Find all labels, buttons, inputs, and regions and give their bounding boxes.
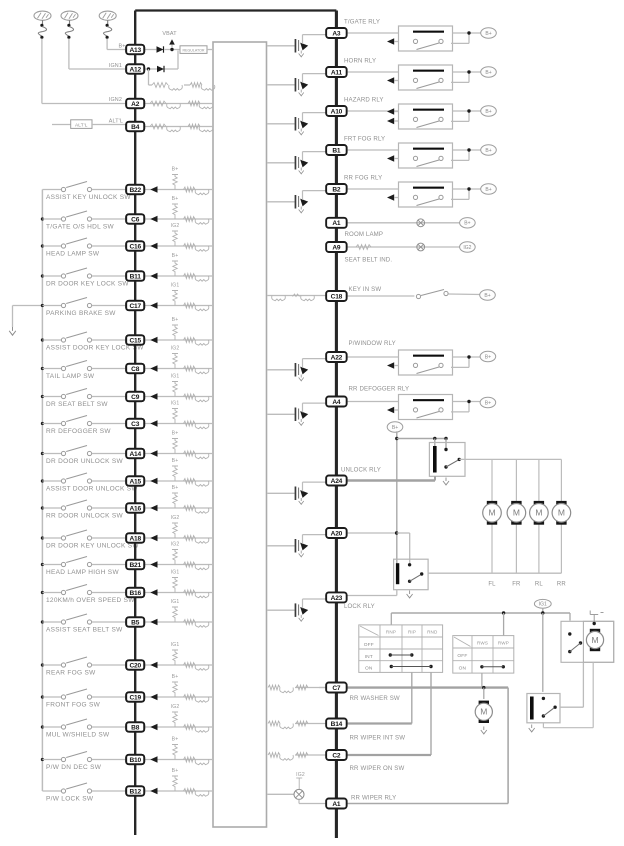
connector B+ B1 — [481, 145, 497, 155]
junction — [41, 395, 44, 398]
junction — [41, 479, 44, 482]
pin B12 — [126, 786, 144, 795]
wire C20 to module — [144, 664, 213, 666]
pin B8 — [126, 722, 144, 731]
svg-text:MUL W/SHIELD SW: MUL W/SHIELD SW — [46, 732, 110, 739]
wire motor column x516 — [515, 459, 517, 501]
svg-text:IG1: IG1 — [171, 570, 180, 576]
wire motor column x538 — [538, 459, 540, 501]
svg-text:B+: B+ — [172, 737, 179, 743]
wire table1 col3 to B14 — [411, 672, 413, 723]
svg-text:IG2: IG2 — [171, 704, 180, 710]
diode arrow C8 — [150, 365, 157, 371]
svg-text:B+: B+ — [172, 431, 179, 437]
fusible link F1 — [34, 11, 51, 20]
diode D2 — [157, 66, 164, 72]
connector B+ A3 — [481, 28, 497, 38]
svg-text:RWP: RWP — [498, 641, 509, 646]
pin C18 — [326, 291, 347, 301]
svg-text:FL: FL — [488, 582, 496, 588]
pin B22 — [126, 185, 144, 194]
svg-text:B+: B+ — [485, 109, 491, 115]
wire motor column x561 — [560, 459, 562, 501]
pin C19 — [126, 692, 144, 701]
wire A21 to unlock coil — [346, 479, 435, 482]
svg-text:B+: B+ — [464, 221, 470, 227]
pin C8 — [126, 364, 144, 373]
pin C3 — [126, 419, 144, 428]
svg-text:FRONT FOG SW: FRONT FOG SW — [46, 702, 101, 709]
table1 contacts INT — [389, 653, 392, 656]
svg-text:A15: A15 — [129, 478, 141, 485]
switch DR SEAT BELT SW — [42, 396, 61, 398]
svg-text:IG2: IG2 — [171, 223, 180, 229]
pin B22 — [126, 185, 144, 194]
pin A23 — [326, 592, 347, 602]
switch ASSIST SEAT BELT SW — [42, 621, 61, 623]
pin C17 — [126, 301, 144, 310]
park contact symbol — [590, 611, 603, 622]
wire B16 to module — [144, 592, 213, 594]
series resistor to A16 — [184, 506, 196, 511]
svg-text:B+: B+ — [172, 458, 179, 464]
svg-text:IG2: IG2 — [296, 772, 305, 778]
ground lead — [13, 305, 43, 307]
diode arrow C6 — [150, 216, 157, 222]
pin C6 — [126, 214, 144, 223]
svg-text:B+: B+ — [172, 253, 179, 259]
svg-text:KEY IN SW: KEY IN SW — [349, 286, 382, 293]
svg-text:A9: A9 — [332, 244, 341, 251]
switch HEAD LAMP SW — [42, 245, 61, 247]
svg-text:B+: B+ — [172, 674, 179, 680]
pin C9 — [126, 392, 144, 401]
wire C2 row — [346, 754, 431, 756]
svg-text:UNLOCK RLY: UNLOCK RLY — [341, 467, 381, 474]
junction — [41, 244, 44, 247]
resistor seat belt — [356, 245, 371, 250]
svg-text:C8: C8 — [131, 366, 140, 373]
diode arrow A15 — [150, 478, 157, 484]
svg-text:B+: B+ — [172, 196, 179, 202]
right bus wire — [335, 11, 338, 839]
diode D1 — [157, 46, 164, 52]
svg-text:M: M — [513, 508, 520, 518]
wire motor column x492 — [491, 459, 493, 501]
driver transistor for A3 — [267, 45, 294, 47]
switch DR DOOR KEY UNLOCK SW — [42, 537, 61, 539]
junction — [41, 338, 44, 341]
ground unlock relay — [443, 478, 449, 486]
pin B5 — [126, 617, 144, 626]
relay RR WIPER RLY — [527, 694, 560, 723]
svg-text:RR WIPER ON SW: RR WIPER ON SW — [350, 765, 405, 772]
svg-text:DR DOOR KEY LOCK SW: DR DOOR KEY LOCK SW — [46, 281, 129, 288]
wire B12 to module — [144, 790, 213, 792]
svg-text:IG2: IG2 — [171, 542, 180, 548]
diode arrow C9 — [150, 393, 157, 399]
svg-text:HEAD LAMP HIGH SW: HEAD LAMP HIGH SW — [46, 569, 119, 576]
diode arrow B10 — [150, 756, 157, 762]
driver transistor for A20 — [267, 545, 294, 547]
svg-text:A22: A22 — [331, 354, 343, 361]
wire A1 wiper rly vertical — [507, 688, 509, 804]
pin A18 — [126, 533, 144, 542]
series resistor to B21 — [184, 562, 196, 567]
svg-text:B+: B+ — [172, 167, 179, 173]
diode arrow B22 — [150, 186, 157, 192]
wire washer motor lead — [483, 688, 485, 699]
wire lamp to A1 — [298, 799, 300, 803]
series resistor to C15 — [184, 338, 196, 343]
svg-text:INT: INT — [365, 654, 373, 660]
wire lock output rail — [428, 572, 561, 574]
junction — [41, 536, 44, 539]
pin C15 — [126, 335, 144, 344]
wire C6 to module — [144, 218, 213, 220]
svg-text:HAZARD RLY: HAZARD RLY — [344, 97, 384, 104]
svg-text:PARKING BRAKE SW: PARKING BRAKE SW — [46, 310, 116, 317]
series resistor to B8 — [184, 725, 196, 730]
series resistor to C20 — [184, 663, 196, 668]
svg-text:IG1: IG1 — [171, 401, 180, 407]
pin A22 — [326, 352, 347, 362]
switch ASSIST DOOR UNLOCK SW — [42, 480, 61, 482]
pin B12 — [126, 786, 144, 795]
junction unlock contact — [444, 437, 447, 440]
svg-text:RND: RND — [427, 630, 438, 635]
wire B11 to module — [144, 275, 213, 277]
pin B10 — [126, 755, 144, 764]
svg-text:FRT FOG RLY: FRT FOG RLY — [344, 136, 385, 143]
svg-text:C15: C15 — [129, 337, 141, 344]
junction — [41, 663, 44, 666]
diode arrow C3 — [150, 420, 157, 426]
svg-text:A23: A23 — [331, 595, 343, 602]
svg-text:ASSIST SEAT BELT SW: ASSIST SEAT BELT SW — [46, 627, 123, 634]
pin C15 — [126, 335, 144, 344]
junction park — [593, 622, 596, 625]
pin A3 — [326, 28, 347, 38]
series resistor to C17 — [184, 303, 196, 308]
svg-text:B+: B+ — [485, 354, 491, 360]
svg-text:DR DOOR KEY UNLOCK SW: DR DOOR KEY UNLOCK SW — [46, 543, 139, 550]
svg-text:A13: A13 — [129, 47, 141, 54]
svg-text:T/GATE O/S HDL SW: T/GATE O/S HDL SW — [46, 224, 115, 231]
series resistor to C8 — [184, 366, 196, 371]
pin B14 — [326, 719, 347, 729]
pin A4 — [326, 397, 347, 407]
wire A23 to lock coil — [346, 595, 397, 597]
ground wiper relay — [529, 725, 535, 733]
series resistor to C3 — [184, 421, 196, 426]
series resistor to B12 — [184, 789, 196, 794]
svg-text:ASSIST DOOR UNLOCK SW: ASSIST DOOR UNLOCK SW — [46, 486, 138, 493]
svg-text:B11: B11 — [130, 273, 142, 280]
svg-text:C20: C20 — [129, 662, 141, 669]
junction — [41, 591, 44, 594]
junction rail 2 — [541, 611, 544, 614]
connector IG1 wiper — [534, 599, 551, 608]
wire fuse F1 feed — [41, 39, 43, 104]
pin A13 overlay — [126, 45, 144, 54]
wire wiper ind row — [267, 793, 294, 795]
svg-text:RR DEFOGGER SW: RR DEFOGGER SW — [46, 428, 111, 435]
switch table INT wiper — [359, 625, 443, 673]
diode arrow C16 — [150, 243, 157, 249]
wire to relay coil — [542, 613, 544, 692]
svg-text:REAR FOG SW: REAR FOG SW — [46, 670, 96, 677]
svg-text:B+: B+ — [485, 70, 491, 76]
switch RR DOOR UNLOCK SW — [42, 507, 61, 509]
pin B2 — [326, 184, 347, 194]
switch DR DOOR UNLOCK SW — [42, 453, 61, 455]
svg-text:M: M — [558, 508, 565, 518]
series resistor to B5 — [184, 620, 196, 625]
pin C16 — [126, 241, 144, 250]
wire B22 to module — [144, 189, 213, 191]
svg-text:ALT'L: ALT'L — [75, 122, 88, 127]
pin B21 — [126, 560, 144, 569]
driver transistor for A4 — [267, 413, 294, 415]
svg-text:B+: B+ — [485, 187, 491, 193]
svg-text:C2: C2 — [332, 752, 341, 759]
svg-text:ALT'L: ALT'L — [109, 119, 123, 125]
svg-text:A1: A1 — [332, 801, 341, 808]
pin B4 — [126, 122, 144, 131]
series resistor to C19 — [184, 695, 196, 700]
svg-text:IG1: IG1 — [171, 642, 180, 648]
pin A10 — [326, 106, 347, 116]
svg-text:A4: A4 — [332, 399, 341, 406]
key in sw input resistors — [267, 295, 326, 297]
top rail wire — [135, 9, 336, 11]
wire C9 to module — [144, 396, 213, 398]
svg-text:A1: A1 — [332, 220, 341, 227]
svg-text:A14: A14 — [129, 451, 141, 458]
diode arrow C17 — [150, 302, 157, 308]
diode arrow B11 — [150, 273, 157, 279]
wire C8 to module — [144, 368, 213, 370]
pin A14 — [126, 449, 144, 458]
svg-text:LOCK RLY: LOCK RLY — [344, 603, 375, 610]
svg-text:M: M — [591, 635, 598, 645]
wire pin A13 row — [144, 49, 156, 51]
svg-text:C9: C9 — [131, 394, 140, 401]
switch P/W LOCK SW — [42, 790, 61, 792]
wire C3 to module — [144, 423, 213, 425]
fusible link F3 — [99, 11, 116, 20]
svg-text:C19: C19 — [129, 694, 141, 701]
svg-text:FR: FR — [512, 582, 521, 588]
switch ground bus — [41, 190, 43, 792]
junction — [41, 506, 44, 509]
svg-text:RIP: RIP — [408, 630, 416, 635]
series resistor to B11 — [184, 274, 196, 279]
ground symbol left — [9, 327, 16, 335]
wire wiper relay output — [560, 706, 583, 708]
resistor network A12 — [148, 69, 150, 85]
pin B16 — [126, 588, 144, 597]
pin A18 — [126, 533, 144, 542]
wire C16 to module — [144, 245, 213, 247]
lamp SEAT BELT IND — [417, 243, 425, 251]
lamp ROOM LAMP — [417, 219, 425, 227]
switch ASSIST KEY UNLOCK SW — [42, 189, 61, 191]
svg-text:B5: B5 — [131, 619, 140, 626]
switch RR DEFOGGER SW — [42, 423, 61, 425]
pin B1 — [326, 145, 347, 155]
junction — [41, 725, 44, 728]
svg-text:A24: A24 — [331, 478, 343, 485]
pin C20 — [126, 660, 144, 669]
svg-text:C18: C18 — [331, 293, 343, 300]
svg-text:C17: C17 — [129, 303, 141, 310]
svg-text:B+: B+ — [172, 317, 179, 323]
wire B21 to module — [144, 564, 213, 566]
junction unlock coil — [433, 437, 436, 440]
pin B21 — [126, 560, 144, 569]
ECU module box — [213, 42, 267, 827]
svg-text:IG1: IG1 — [539, 602, 547, 608]
wire table1 feed — [390, 613, 392, 625]
pin C19 — [126, 692, 144, 701]
connector B+ door lock feed — [387, 422, 403, 432]
diode arrow C15 — [150, 337, 157, 343]
wire C17 to module — [144, 305, 213, 307]
switch ASSIST DOOR KEY LOCK SW — [42, 339, 61, 341]
svg-text:IG2: IG2 — [463, 245, 471, 251]
junction — [41, 217, 44, 220]
node A12 junction — [147, 67, 150, 70]
diode arrow A14 — [150, 450, 157, 456]
svg-text:B16: B16 — [129, 590, 141, 597]
fusible link F2 — [61, 11, 78, 20]
diode arrow B5 — [150, 619, 157, 625]
svg-text:RR: RR — [557, 582, 566, 588]
svg-text:RNP: RNP — [386, 630, 396, 635]
svg-text:RWS: RWS — [477, 641, 488, 646]
wire B+ feed vertical — [396, 431, 398, 563]
washer motor — [479, 701, 489, 705]
svg-text:B4: B4 — [131, 124, 140, 131]
wire A15 to module — [144, 480, 213, 482]
wire to wiper motor assy — [569, 613, 571, 621]
svg-text:REGULATOR: REGULATOR — [182, 48, 204, 52]
switch table washer — [453, 636, 514, 674]
switch MUL W/SHIELD SW — [42, 726, 61, 728]
svg-text:B10: B10 — [129, 757, 141, 764]
regulator U2 — [180, 46, 207, 54]
svg-text:IG2: IG2 — [171, 346, 180, 352]
series resistor to B10 — [184, 757, 196, 762]
switch DR DOOR KEY LOCK SW — [42, 275, 61, 277]
diode arrow C19 — [150, 694, 157, 700]
junction — [41, 758, 44, 761]
junction — [41, 695, 44, 698]
pin C3 — [126, 419, 144, 428]
svg-text:B12: B12 — [129, 788, 141, 795]
svg-text:RR DOOR UNLOCK SW: RR DOOR UNLOCK SW — [46, 513, 124, 520]
resistor network C2 — [268, 753, 280, 758]
svg-text:DR SEAT BELT SW: DR SEAT BELT SW — [46, 401, 108, 408]
diode arrow A18 — [150, 535, 157, 541]
driver transistor for A22 — [267, 369, 294, 371]
wire seat belt row — [346, 246, 460, 248]
switch FRONT FOG SW — [42, 696, 61, 698]
wire C15 to module — [144, 339, 213, 341]
svg-text:B+: B+ — [118, 43, 125, 49]
junction — [41, 422, 44, 425]
driver transistor for A10 — [267, 123, 294, 125]
driver transistor for A24 — [267, 492, 294, 494]
driver transistor for B1 — [267, 162, 294, 164]
junction — [41, 274, 44, 277]
svg-text:A20: A20 — [331, 530, 343, 537]
wire wiper motor return — [592, 662, 594, 727]
pin C9 — [126, 392, 144, 401]
pin C17 — [126, 301, 144, 310]
series resistor to A14 — [184, 451, 196, 456]
wire to table2 — [503, 613, 505, 636]
pin A2 overlay — [126, 99, 144, 108]
pin A20 — [326, 528, 347, 538]
resistor network A2 — [150, 101, 166, 106]
junction rail 1 — [502, 611, 505, 614]
svg-text:B+: B+ — [485, 400, 491, 406]
wire table1 col4 to C2 — [430, 672, 432, 755]
junction — [41, 563, 44, 566]
svg-text:P/WINDOW RLY: P/WINDOW RLY — [349, 340, 396, 347]
svg-text:B21: B21 — [129, 562, 141, 569]
pin A1 — [326, 218, 347, 228]
wire B10 to module — [144, 759, 213, 761]
svg-text:DR DOOR UNLOCK SW: DR DOOR UNLOCK SW — [46, 458, 124, 465]
svg-text:A12: A12 — [129, 66, 141, 73]
connector B+ p/window — [480, 351, 496, 361]
svg-text:P/W LOCK SW: P/W LOCK SW — [46, 796, 94, 803]
pin B5 — [126, 617, 144, 626]
wire B8 to module — [144, 726, 213, 728]
svg-text:RR WIPER INT SW: RR WIPER INT SW — [350, 735, 406, 742]
svg-text:RR WASHER SW: RR WASHER SW — [350, 695, 400, 702]
wire A16 to module — [144, 507, 213, 509]
series resistor to C9 — [184, 394, 196, 399]
connector B+ room lamp — [460, 218, 476, 228]
driver transistor for A23 — [267, 609, 294, 611]
connector B+ key in — [480, 290, 496, 300]
pin A13 — [126, 45, 144, 54]
pin B16 — [126, 588, 144, 597]
junction A20 — [395, 531, 398, 534]
svg-text:M: M — [480, 707, 487, 717]
pin A16 — [126, 503, 144, 512]
svg-text:ON: ON — [365, 666, 373, 672]
svg-text:A10: A10 — [331, 108, 343, 115]
pin A9 — [326, 242, 347, 252]
diode arrow B16 — [150, 589, 157, 595]
svg-text:C3: C3 — [131, 421, 140, 428]
series resistor to B16 — [184, 590, 196, 595]
indicator lamp wiper — [294, 789, 304, 799]
wiper feed rail — [391, 612, 570, 614]
junction — [41, 367, 44, 370]
svg-text:C6: C6 — [131, 216, 140, 223]
svg-text:B+: B+ — [172, 485, 179, 491]
switch 120KM/h OVER SPEED SW — [42, 592, 61, 594]
resistor network C7 — [268, 685, 280, 690]
pin C20 — [126, 660, 144, 669]
